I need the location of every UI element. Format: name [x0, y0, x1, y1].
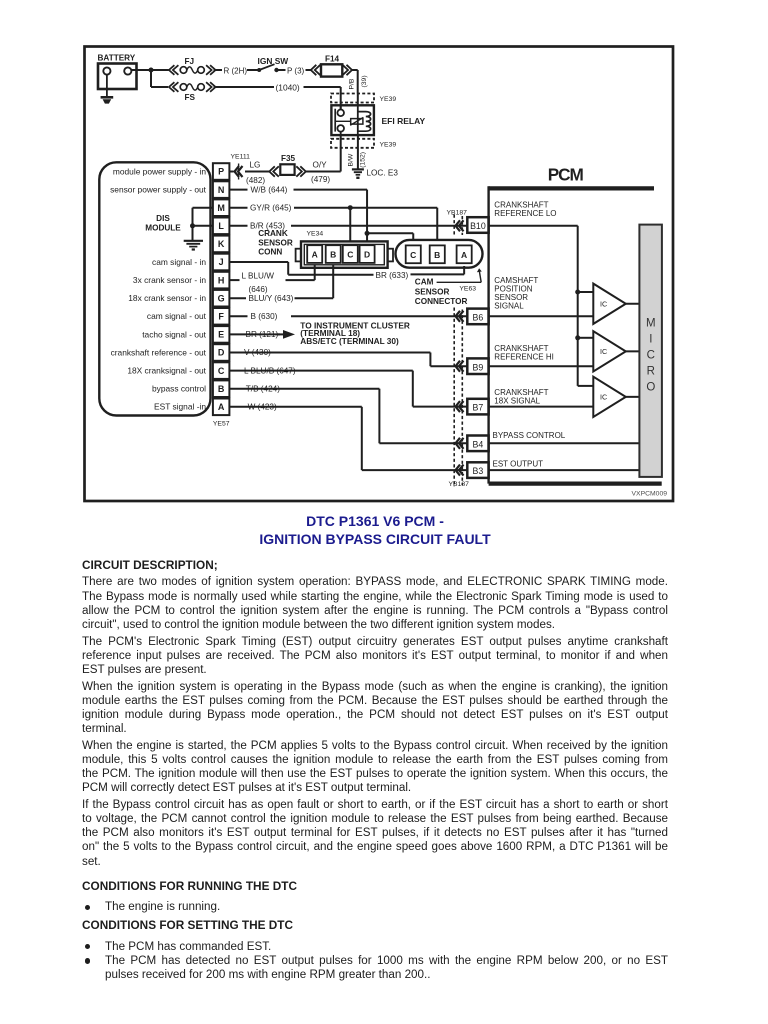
- arrow to instrument cluster: [278, 330, 296, 339]
- svg-text:P/B: P/B: [349, 78, 356, 89]
- svg-text:F: F: [218, 312, 224, 322]
- svg-text:CAM: CAM: [415, 278, 434, 287]
- fuse FS: [169, 82, 216, 102]
- wire junction down to FS row: [151, 70, 168, 87]
- DIS connector pin boxes YE57: [213, 163, 230, 415]
- svg-text:(1040): (1040): [276, 82, 300, 92]
- svg-text:O: O: [646, 382, 655, 394]
- wire 644 to crank sensor D: [366, 233, 368, 242]
- label T/B (424): [246, 384, 280, 393]
- svg-text:cam signal - in: cam signal - in: [152, 257, 206, 267]
- wire junction to IC3: [578, 385, 594, 387]
- paragraph 5: [82, 798, 668, 869]
- document title: [82, 513, 668, 548]
- wire relay coil to earth B/W (152): [357, 135, 359, 169]
- svg-text:B3: B3: [473, 466, 484, 476]
- svg-text:C: C: [410, 250, 416, 260]
- DIS module box: [99, 162, 210, 415]
- svg-text:CONN: CONN: [258, 247, 282, 256]
- svg-text:BR (121): BR (121): [246, 330, 279, 339]
- label O/Y (479): [311, 161, 330, 185]
- svg-text:P: P: [218, 167, 224, 177]
- wire W (423) to PCM B3: [229, 407, 467, 470]
- wire B/R (453) to PCM B10: [229, 225, 467, 227]
- paragraph 3: [82, 680, 668, 737]
- wire L BLU/B (647) to PCM B7: [229, 371, 467, 407]
- label P (3): [287, 66, 305, 75]
- connector YB187 chevron B10: [454, 215, 463, 237]
- svg-text:REFERENCE LO: REFERENCE LO: [494, 209, 556, 218]
- svg-text:PCM: PCM: [548, 165, 584, 185]
- svg-text:N: N: [218, 185, 225, 195]
- svg-text:L BLU/B (647): L BLU/B (647): [244, 366, 296, 375]
- wire BLU/Y (643) crank B: [229, 265, 333, 299]
- svg-text:IC: IC: [600, 393, 607, 402]
- label (39) vertical: [361, 75, 368, 87]
- paragraph 4: [82, 739, 668, 796]
- wire relay contact to O/Y row: [340, 135, 342, 171]
- svg-text:G: G: [218, 293, 225, 303]
- svg-text:bypass control: bypass control: [152, 384, 206, 394]
- svg-text:GY/R (645): GY/R (645): [250, 203, 292, 212]
- label YE111: [231, 153, 251, 160]
- svg-text:YE34: YE34: [307, 231, 324, 238]
- svg-text:P (3): P (3): [287, 66, 305, 75]
- label B/R (453): [250, 222, 285, 231]
- svg-text:E: E: [218, 330, 224, 340]
- svg-text:F35: F35: [281, 154, 296, 163]
- svg-text:18X SIGNAL: 18X SIGNAL: [494, 397, 540, 406]
- node 644 junction: [365, 231, 370, 236]
- svg-text:R (2H): R (2H): [224, 66, 248, 75]
- DIS module internal ground: [184, 208, 213, 251]
- svg-text:SENSOR: SENSOR: [258, 238, 293, 247]
- svg-text:ABS/ETC (TERMINAL 30): ABS/ETC (TERMINAL 30): [300, 336, 399, 346]
- fuse FJ: [169, 57, 216, 75]
- label R (2H): [224, 66, 248, 75]
- svg-text:REFERENCE HI: REFERENCE HI: [494, 352, 554, 361]
- svg-text:B (630): B (630): [251, 312, 278, 321]
- svg-text:M: M: [217, 203, 225, 213]
- node IC1 input junction: [575, 290, 580, 295]
- svg-text:tacho signal - out: tacho signal - out: [142, 329, 206, 339]
- MICRO processor block: [639, 225, 662, 477]
- wire F35 to relay via O/Y (479): [306, 171, 341, 173]
- pin B7: [467, 399, 488, 415]
- svg-text:cam signal - out: cam signal - out: [147, 311, 207, 321]
- fuse F35: [269, 154, 306, 177]
- svg-text:YE111: YE111: [231, 153, 251, 160]
- connector chevron B6: [456, 311, 464, 322]
- label W/B (644): [251, 185, 288, 194]
- svg-text:A: A: [461, 250, 467, 260]
- svg-text:SENSOR: SENSOR: [415, 287, 450, 296]
- relay contact circles: [335, 105, 344, 135]
- label GY/R (645): [250, 203, 292, 212]
- paragraph 1: [82, 575, 668, 632]
- svg-text:(152): (152): [359, 152, 366, 168]
- wire B7 internal: [489, 406, 594, 408]
- wire T/B (424) to PCM B4: [229, 389, 467, 444]
- svg-text:EST OUTPUT: EST OUTPUT: [493, 460, 544, 469]
- connector chevron B7: [456, 401, 464, 412]
- label CRANK SENSOR CONN: [258, 229, 293, 257]
- pin B6: [467, 309, 488, 325]
- svg-text:EFI RELAY: EFI RELAY: [382, 116, 426, 126]
- wire IC2 output: [626, 350, 640, 352]
- wire junction to IC1: [578, 291, 594, 293]
- wire L BLU/W (646) crank A: [229, 265, 314, 281]
- svg-text:B9: B9: [473, 362, 484, 372]
- label VXPCM009: [632, 491, 668, 498]
- svg-text:crankshaft reference - out: crankshaft reference - out: [111, 347, 207, 357]
- wire B3 internal to MICRO: [489, 469, 640, 471]
- label YE63: [459, 285, 476, 292]
- svg-text:YE39: YE39: [380, 141, 397, 148]
- svg-text:18X cranksignal - out: 18X cranksignal - out: [127, 365, 206, 375]
- pin B10: [467, 217, 488, 233]
- battery ground: [101, 75, 114, 104]
- PCM outline: [489, 186, 662, 483]
- svg-text:B7: B7: [473, 403, 484, 413]
- wire F14 down to EFI relay coil: [352, 70, 358, 94]
- ground LOC. E3: [352, 168, 398, 179]
- label BR (121): [246, 330, 279, 339]
- wire R (2H) to IGN SW: [247, 69, 258, 71]
- svg-text:(479): (479): [311, 175, 330, 184]
- svg-text:CONNECTOR: CONNECTOR: [415, 297, 468, 306]
- diagram border frame: [85, 47, 674, 502]
- svg-text:FS: FS: [185, 93, 196, 102]
- svg-text:(39): (39): [361, 75, 368, 87]
- svg-text:L BLU/W: L BLU/W: [242, 272, 275, 281]
- label L BLU/W (646): [242, 272, 275, 295]
- pin B4: [467, 436, 488, 452]
- node battery junction: [149, 68, 154, 73]
- connector YB187 dashed lines: [454, 308, 462, 488]
- svg-text:K: K: [218, 239, 225, 249]
- label W (423): [248, 403, 277, 412]
- svg-text:BYPASS CONTROL: BYPASS CONTROL: [493, 431, 566, 440]
- wire B6 internal: [489, 315, 594, 317]
- label (152) vertical: [359, 152, 366, 168]
- svg-text:C: C: [218, 366, 225, 376]
- svg-text:B/W: B/W: [348, 153, 355, 166]
- svg-text:BLU/Y (643): BLU/Y (643): [249, 294, 294, 303]
- wire junction to fuse FJ: [151, 69, 169, 71]
- svg-text:FJ: FJ: [185, 57, 195, 66]
- label (1040): [276, 82, 300, 92]
- svg-text:B: B: [330, 250, 336, 260]
- svg-text:D: D: [218, 348, 225, 358]
- svg-text:YE63: YE63: [459, 285, 476, 292]
- wire pin P to F35: [229, 171, 270, 173]
- svg-text:MODULE: MODULE: [145, 224, 181, 233]
- bullet: engine running: [85, 905, 90, 910]
- connector YE111 chevron: [235, 164, 243, 180]
- label YE34: [307, 231, 324, 238]
- svg-text:W (423): W (423): [248, 403, 277, 412]
- svg-text:YB187: YB187: [447, 209, 468, 216]
- wire FJ to R (2H): [214, 69, 223, 71]
- op-amp IC1: [593, 284, 626, 324]
- svg-text:I: I: [649, 334, 652, 346]
- heading CONDITIONS FOR SETTING THE DTC: [82, 918, 293, 932]
- label CAMSHAFT POSITION SENSOR SIGNAL: [494, 276, 538, 311]
- svg-text:D: D: [364, 250, 370, 260]
- wire P (3) to F14: [306, 69, 313, 71]
- label P/B vertical: [349, 78, 356, 89]
- bullet: no EST output pulses: [85, 958, 90, 963]
- DIS pin function labels: [110, 166, 207, 411]
- label BLU/Y (643): [249, 294, 294, 303]
- relay U1 EFI RELAY box: [331, 105, 374, 135]
- connector chevron B4: [456, 438, 464, 449]
- wire B4 internal to MICRO: [489, 442, 640, 444]
- fuse F14: [311, 55, 352, 77]
- svg-text:M: M: [646, 318, 656, 330]
- svg-text:H: H: [218, 275, 225, 285]
- wire (1040) to EFI relay contact: [304, 87, 341, 94]
- battery: [98, 53, 137, 89]
- svg-text:VXPCM009: VXPCM009: [632, 491, 668, 498]
- wire IC1 output: [626, 303, 640, 305]
- cam connector leader arrow: [477, 268, 482, 282]
- svg-text:B4: B4: [473, 439, 484, 449]
- svg-text:IC: IC: [600, 347, 607, 356]
- label L BLU/B (647): [244, 366, 296, 375]
- svg-text:module power supply - in: module power supply - in: [113, 166, 206, 176]
- label B (630): [251, 312, 278, 321]
- wire B (630) to PCM B6: [229, 315, 467, 317]
- svg-text:18x crank sensor - in: 18x crank sensor - in: [128, 293, 206, 303]
- switch IGN SW: [257, 56, 288, 72]
- label CRANKSHAFT REFERENCE HI: [494, 344, 554, 362]
- svg-text:DIS: DIS: [156, 214, 170, 223]
- svg-text:BATTERY: BATTERY: [98, 53, 136, 62]
- op-amp IC2: [593, 331, 626, 371]
- crank sensor connector YE34: [296, 241, 393, 267]
- svg-text:YE39: YE39: [380, 96, 397, 103]
- wire B9 internal: [489, 365, 594, 367]
- svg-text:O/Y: O/Y: [313, 161, 328, 170]
- svg-text:LG: LG: [250, 161, 261, 170]
- label YE57: [213, 420, 230, 427]
- label BR (633): [376, 271, 409, 280]
- relay armature: [335, 105, 363, 135]
- label CRANKSHAFT 18X SIGNAL: [494, 388, 548, 406]
- wire W/B (644): [229, 190, 367, 234]
- label LG (482): [246, 161, 265, 186]
- svg-text:A: A: [312, 250, 318, 260]
- svg-text:B6: B6: [473, 313, 484, 323]
- svg-text:3x crank sensor - in: 3x crank sensor - in: [133, 275, 206, 285]
- svg-text:B: B: [434, 250, 440, 260]
- wire battery to junction: [131, 69, 151, 71]
- label PCM: [548, 165, 584, 185]
- node 645 junction: [348, 205, 353, 210]
- label BYPASS CONTROL: [493, 431, 566, 440]
- label CRANKSHAFT REFERENCE LO: [494, 200, 556, 218]
- pin B3: [467, 462, 488, 478]
- label TO INSTRUMENT CLUSTER: [300, 320, 410, 346]
- label YB187 bottom: [449, 481, 470, 488]
- svg-text:C: C: [647, 350, 655, 362]
- svg-text:B: B: [218, 384, 225, 394]
- wire IC3 output: [626, 396, 640, 398]
- heading CIRCUIT DESCRIPTION: [82, 558, 218, 572]
- svg-text:W/B (644): W/B (644): [251, 185, 288, 194]
- svg-text:CRANK: CRANK: [258, 229, 288, 238]
- label CAM SENSOR CONNECTOR: [415, 278, 481, 306]
- wire 645 branch to crank sensor C: [349, 208, 351, 243]
- connector YE39 lower dashed: [331, 139, 396, 149]
- svg-text:J: J: [219, 257, 224, 267]
- relay feed wires through YE39: [341, 94, 358, 110]
- svg-text:YE57: YE57: [213, 420, 230, 427]
- wire IGN SW to P (3): [278, 69, 286, 71]
- svg-text:R: R: [647, 366, 655, 378]
- wire B10 internal: [489, 226, 578, 386]
- svg-text:L: L: [218, 221, 224, 231]
- paragraph 2: [82, 635, 668, 678]
- svg-text:F14: F14: [325, 55, 340, 64]
- svg-text:SIGNAL: SIGNAL: [494, 302, 524, 311]
- svg-text:(482): (482): [246, 176, 265, 185]
- wire junction to IC2: [578, 337, 594, 339]
- label EFI RELAY: [382, 116, 426, 126]
- bullet: PCM commanded EST: [85, 944, 90, 949]
- wire 644 branch to cam sensor C: [367, 233, 413, 241]
- svg-text:IC: IC: [600, 300, 607, 309]
- svg-text:T/B (424): T/B (424): [246, 384, 280, 393]
- svg-text:EST signal -in: EST signal -in: [154, 402, 206, 412]
- connector YE39 upper dashed: [331, 94, 396, 104]
- svg-text:LOC. E3: LOC. E3: [367, 168, 399, 177]
- label DIS MODULE: [145, 214, 181, 233]
- op-amp IC3: [593, 377, 626, 417]
- label EST OUTPUT: [493, 460, 544, 469]
- node IC2 input junction: [575, 335, 580, 340]
- svg-text:B10: B10: [470, 221, 486, 231]
- cam sensor connector YE63: [396, 240, 483, 268]
- svg-text:A: A: [218, 402, 225, 412]
- svg-text:BR (633): BR (633): [376, 271, 409, 280]
- pin B9: [467, 358, 488, 374]
- wire GY/R (645): [229, 208, 437, 241]
- svg-text:YB187: YB187: [449, 481, 470, 488]
- wire FS to (1040): [214, 86, 275, 88]
- connector chevron B3: [456, 465, 464, 476]
- label V (430): [244, 348, 271, 357]
- wire V (430) to PCM B9: [229, 353, 467, 367]
- relay coil: [358, 112, 371, 132]
- connector chevron B9: [456, 361, 464, 372]
- label YB187 top: [447, 209, 468, 216]
- svg-text:C: C: [347, 250, 353, 260]
- svg-text:(646): (646): [249, 285, 268, 294]
- wire tacho BR (121): [229, 333, 280, 335]
- label B/W vertical: [348, 153, 355, 166]
- heading CONDITIONS FOR RUNNING THE DTC: [82, 879, 297, 893]
- svg-text:V (430): V (430): [244, 348, 271, 357]
- wire BR (633) cam signal: [229, 262, 464, 275]
- svg-text:sensor power supply - out: sensor power supply - out: [110, 184, 207, 194]
